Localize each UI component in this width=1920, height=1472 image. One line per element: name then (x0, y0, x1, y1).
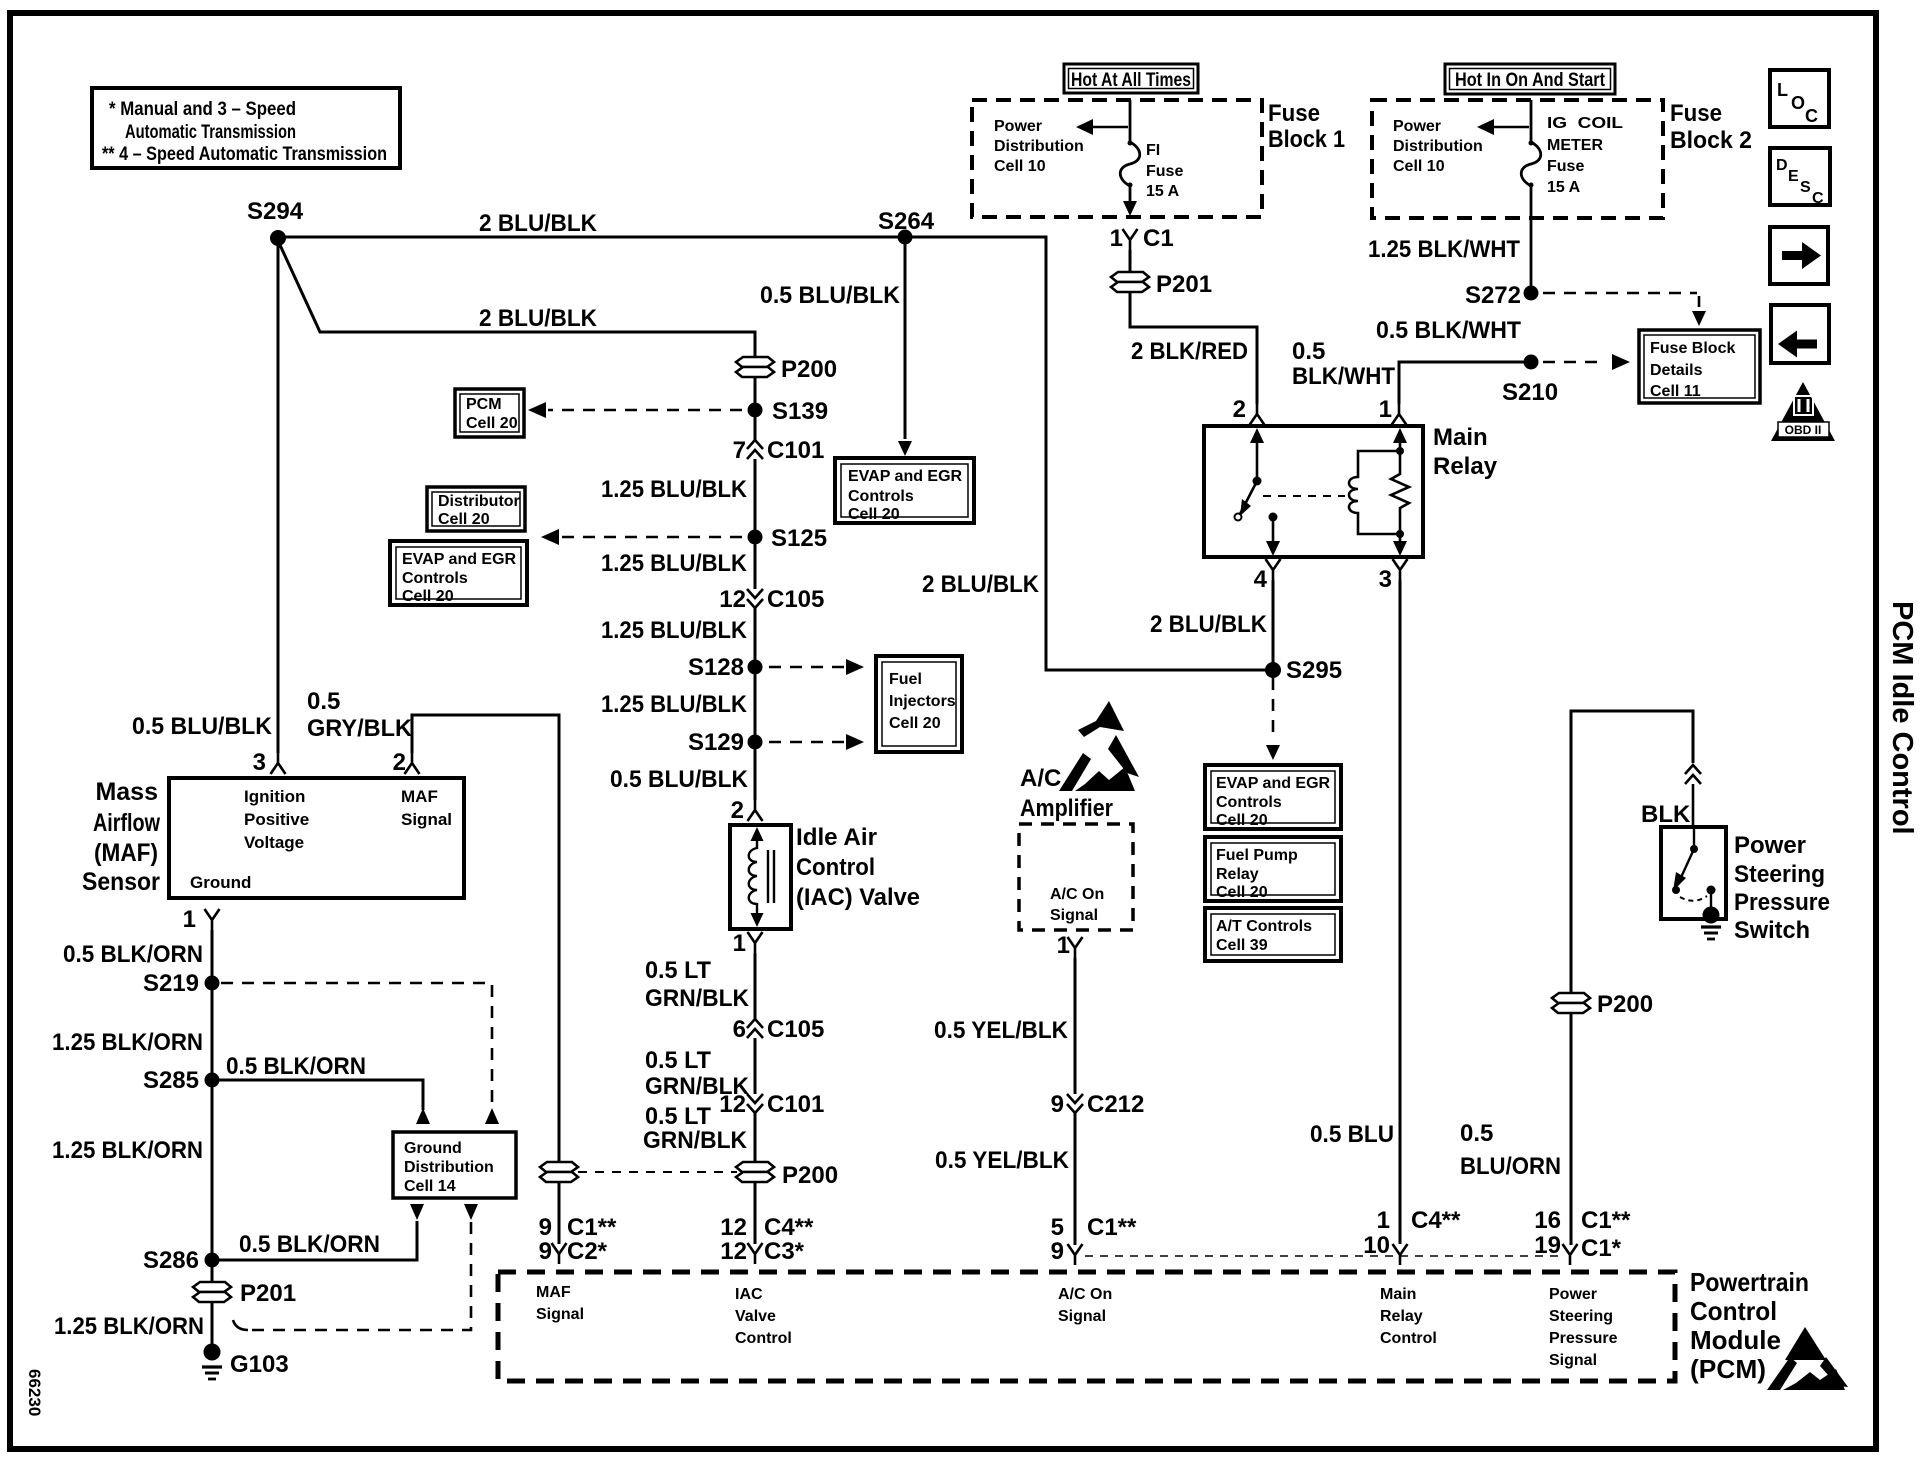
svg-text:Distributor: Distributor (438, 493, 520, 510)
svg-text:2 BLU/BLK: 2 BLU/BLK (479, 210, 598, 237)
svg-text:BLK/WHT: BLK/WHT (1292, 363, 1395, 390)
svg-text:Signal: Signal (1050, 907, 1098, 924)
note box (transmission legend) (92, 88, 400, 168)
svg-text:** 4 – Speed Automatic Transmi: ** 4 – Speed Automatic Transmission (102, 144, 387, 165)
svg-text:GRY/BLK: GRY/BLK (307, 715, 413, 742)
svg-text:3: 3 (1379, 566, 1392, 593)
box Hot At All Times (1064, 64, 1198, 93)
relay pin 2 (1233, 396, 1265, 425)
wire C1 to P201 (1129, 250, 1132, 271)
svg-text:2 BLK/RED: 2 BLK/RED (1131, 338, 1248, 365)
text MAF Signal (pin label) (401, 787, 452, 829)
wire C101 to P200 (754, 1113, 757, 1161)
svg-text:S210: S210 (1502, 379, 1558, 406)
box Mass Airflow (MAF) Sensor (169, 778, 464, 898)
svg-text:MAF: MAF (401, 787, 438, 806)
svg-text:Details: Details (1650, 362, 1703, 379)
relay pin 4 (1254, 559, 1281, 593)
svg-text:Airflow: Airflow (93, 809, 160, 837)
dashed wire S295 to EVAP controls (1266, 678, 1280, 760)
thin dashed PCM pin rail (1085, 1255, 1562, 1257)
text Power Distribution Cell 10 (block 2) (1393, 118, 1483, 175)
connector C1 pin 1 (1110, 225, 1174, 252)
svg-text:2 BLU/BLK: 2 BLU/BLK (922, 571, 1040, 598)
wire chevrons to switch (1692, 784, 1695, 827)
connector P200 (power steering) (1552, 991, 1653, 1018)
wire S294 down to MAF pin 3 (277, 245, 280, 753)
box Distributor Cell 20 (427, 487, 525, 531)
svg-text:1: 1 (733, 930, 746, 957)
svg-text:P201: P201 (1156, 271, 1212, 298)
svg-text:Cell 11: Cell 11 (1650, 383, 1701, 400)
svg-text:0.5 YEL/BLK: 0.5 YEL/BLK (935, 1147, 1070, 1174)
icon previous-page arrow button (1771, 305, 1829, 363)
svg-text:Relay: Relay (1216, 866, 1259, 883)
svg-text:Controls: Controls (1216, 794, 1282, 811)
text A/C On Signal (PCM) (1058, 1286, 1112, 1325)
svg-text:GRN/BLK: GRN/BLK (645, 985, 750, 1012)
wire relay pin 3 to PCM (1399, 580, 1402, 1244)
label 2 BLU/BLK (pin 4 wire) (1150, 611, 1268, 638)
svg-text:2: 2 (731, 797, 744, 824)
svg-text:A/T Controls: A/T Controls (1216, 918, 1312, 935)
splice S264 (878, 208, 935, 245)
svg-text:EVAP and EGR: EVAP and EGR (848, 468, 963, 485)
svg-text:0.5 BLK/ORN: 0.5 BLK/ORN (226, 1053, 366, 1080)
svg-text:0.5 BLK/ORN: 0.5 BLK/ORN (63, 941, 203, 968)
svg-text:Cell 20: Cell 20 (402, 588, 454, 605)
svg-text:Control: Control (796, 854, 875, 881)
svg-text:C105: C105 (767, 1016, 824, 1043)
svg-text:A/C On: A/C On (1050, 886, 1104, 903)
relay switch (internal) (1235, 428, 1346, 556)
label IG COIL METER Fuse 15 A (1547, 115, 1623, 196)
svg-text:Injectors: Injectors (889, 693, 956, 710)
ESD symbol (A/C amplifier) (1059, 701, 1139, 791)
svg-text:1.25 BLU/BLK: 1.25 BLU/BLK (601, 550, 748, 577)
svg-text:A/C On: A/C On (1058, 1286, 1112, 1303)
label Fuse Block 2 (1670, 100, 1752, 154)
icon next-page arrow button (1770, 227, 1828, 284)
arrow fuse output (block 1) (1123, 201, 1137, 216)
icon LOC button (1770, 70, 1829, 127)
text MAF Signal (PCM) (536, 1284, 584, 1323)
connector chevrons (power steering switch lead) (1685, 765, 1701, 784)
svg-text:Steering: Steering (1734, 861, 1825, 888)
dashed wire S128 to fuel injectors (769, 659, 864, 675)
svg-text:IG COIL: IG COIL (1547, 115, 1623, 132)
box PCM Cell 20 (455, 389, 524, 437)
svg-text:Idle Air: Idle Air (796, 824, 877, 851)
icon DESC button (1770, 148, 1830, 207)
svg-text:1.25 BLU/BLK: 1.25 BLU/BLK (601, 617, 748, 644)
svg-text:Hot At All Times: Hot At All Times (1071, 70, 1191, 91)
wire C101 to S125 (754, 459, 757, 530)
svg-text:S294: S294 (247, 198, 304, 225)
label Power Steering Pressure Switch (1734, 832, 1830, 944)
svg-text:Hot In On And Start: Hot In On And Start (1455, 70, 1606, 91)
label 0.5 LT GRN/BLK (1) (645, 957, 750, 1012)
label 0.5 BLK/WHT (two lines) (1292, 338, 1395, 390)
wire S286 to ground distribution (219, 1204, 424, 1260)
relay resistor (internal) (1391, 428, 1409, 556)
svg-text:C: C (1805, 106, 1818, 126)
svg-text:C: C (1812, 190, 1824, 207)
relay pin 1 (1379, 396, 1407, 425)
relay coil (internal) (1349, 451, 1400, 534)
dashed wire S210 to fuse block details (1543, 354, 1630, 370)
svg-text:Power: Power (1393, 118, 1441, 135)
svg-text:Automatic Transmission: Automatic Transmission (125, 122, 296, 143)
wire S294 diagonal branch (280, 245, 755, 357)
svg-text:EVAP and EGR: EVAP and EGR (1216, 775, 1331, 792)
svg-text:1: 1 (183, 906, 196, 933)
svg-text:C1**: C1** (1581, 1207, 1631, 1234)
svg-text:12: 12 (720, 1238, 747, 1265)
svg-text:Controls: Controls (402, 570, 468, 587)
dashed box Fuse Block 1 (972, 100, 1262, 217)
relay box Main Relay (1204, 426, 1423, 557)
svg-text:C1: C1 (1143, 225, 1174, 252)
dashed box Powertrain Control Module (PCM) (498, 1272, 1675, 1381)
svg-text:P200: P200 (782, 1162, 838, 1189)
svg-text:1: 1 (1379, 396, 1392, 423)
PCM pins 12 C4** / 12 C3* (720, 1214, 814, 1265)
svg-text:IAC: IAC (735, 1286, 763, 1303)
svg-text:FI: FI (1146, 142, 1160, 159)
box Fuse Block Details Cell 11 (1639, 330, 1760, 403)
svg-text:C3*: C3* (764, 1238, 805, 1265)
text IAC Valve Control (PCM) (735, 1286, 792, 1347)
svg-text:Cell 20: Cell 20 (889, 715, 941, 732)
box Fuel Pump Relay Cell 20 (1205, 837, 1341, 901)
label 0.5 YEL/BLK (1) (934, 1017, 1069, 1044)
label 0.5 BLK/ORN (1) (63, 941, 203, 968)
svg-text:Pressure: Pressure (1549, 1330, 1618, 1347)
svg-text:S128: S128 (688, 654, 744, 681)
svg-text:(PCM): (PCM) (1690, 1354, 1766, 1384)
connector P200 (MAF column) (540, 1162, 578, 1182)
PCM pins 5 C1** / 9 (1051, 1214, 1137, 1265)
svg-text:9: 9 (539, 1238, 552, 1265)
splice S286 (143, 1247, 220, 1274)
svg-text:Signal: Signal (1549, 1352, 1597, 1369)
svg-text:1: 1 (1377, 1207, 1390, 1234)
svg-text:2: 2 (1233, 396, 1246, 423)
svg-text:1.25 BLK/ORN: 1.25 BLK/ORN (52, 1137, 203, 1164)
wire P200 to PCM pin 9 (558, 1182, 561, 1244)
wire S139 to C101 (754, 417, 757, 440)
svg-text:Distribution: Distribution (1393, 138, 1483, 155)
dashed wire S125 to distributor / EVAP (541, 529, 742, 545)
svg-text:Powertrain: Powertrain (1690, 1267, 1809, 1297)
label A/C Amplifier (1020, 765, 1113, 822)
svg-text:MAF: MAF (536, 1284, 571, 1301)
svg-text:1.25 BLU/BLK: 1.25 BLU/BLK (601, 476, 748, 503)
svg-text:Ignition: Ignition (244, 787, 305, 806)
wire S129 to IAC pin 2 (754, 749, 757, 800)
wire P200 to S139 (754, 377, 757, 404)
connector C212 pin 9 (1051, 1091, 1145, 1118)
label 0.5 BLK/ORN (S285) (226, 1053, 366, 1080)
label 2 BLU/BLK (diagonal branch) (479, 305, 598, 332)
svg-text:15 A: 15 A (1547, 179, 1581, 196)
svg-text:Fuel Pump: Fuel Pump (1216, 847, 1298, 864)
wire power steering feed (1571, 711, 1693, 992)
svg-text:0.5: 0.5 (1292, 338, 1325, 365)
box Ground Distribution Cell 14 (393, 1132, 516, 1198)
svg-text:Fuse: Fuse (1268, 100, 1320, 127)
svg-text:C105: C105 (767, 586, 824, 613)
svg-text:BLU/ORN: BLU/ORN (1460, 1153, 1561, 1180)
box EVAP and EGR Controls Cell 20 (right) (1205, 765, 1341, 829)
svg-text:1.25 BLK/ORN: 1.25 BLK/ORN (52, 1029, 203, 1056)
label 0.5 YEL/BLK (2) (935, 1147, 1070, 1174)
svg-text:1.25 BLK/WHT: 1.25 BLK/WHT (1368, 236, 1520, 263)
svg-text:Signal: Signal (401, 810, 452, 829)
svg-text:Steering: Steering (1549, 1308, 1613, 1325)
svg-text:Signal: Signal (1058, 1308, 1106, 1325)
svg-text:Relay: Relay (1433, 453, 1498, 480)
label 0.5 BLK/WHT (1376, 317, 1521, 344)
svg-text:Cell 20: Cell 20 (466, 415, 518, 432)
svg-text:Main: Main (1433, 424, 1488, 451)
svg-text:Block 2: Block 2 (1670, 127, 1752, 154)
svg-text:Power: Power (994, 118, 1042, 135)
svg-text:S219: S219 (143, 970, 199, 997)
text Power Distribution Cell 10 (block 1) (994, 118, 1084, 175)
svg-text:9: 9 (1051, 1238, 1064, 1265)
svg-text:C1*: C1* (1581, 1235, 1622, 1262)
connector C101 pin 12 (719, 1091, 824, 1118)
text Main Relay Control (PCM) (1380, 1286, 1437, 1347)
svg-text:2: 2 (393, 749, 406, 776)
wire IAC pin 1 to C105 (754, 953, 757, 1019)
svg-text:6: 6 (733, 1016, 746, 1043)
svg-text:Fuse Block: Fuse Block (1650, 340, 1735, 357)
dashed box A/C On Signal (1019, 824, 1133, 930)
A/C pin 1 (1057, 932, 1083, 959)
svg-text:C101: C101 (767, 437, 824, 464)
svg-text:Distribution: Distribution (994, 138, 1084, 155)
box Fuel Injectors Cell 20 (876, 656, 962, 752)
svg-text:G103: G103 (230, 1351, 289, 1378)
wire S210 to relay pin 1 (1399, 362, 1531, 404)
label BLK (1641, 801, 1691, 828)
label 0.5 BLK/ORN (S286) (239, 1231, 380, 1258)
label 1.25 BLK/ORN (2) (52, 1137, 203, 1164)
label 1.25 BLU/BLK (4) (601, 691, 748, 718)
svg-text:C212: C212 (1087, 1091, 1144, 1118)
svg-text:GRN/BLK: GRN/BLK (643, 1127, 748, 1154)
dashed wire S129 to fuel injectors (769, 734, 864, 750)
box power steering pressure switch (1661, 827, 1726, 919)
svg-text:Cell 10: Cell 10 (1393, 158, 1445, 175)
label Powertrain Control Module (PCM) (1690, 1267, 1809, 1384)
label 0.5 GRY/BLK (307, 688, 413, 742)
fuse IG COIL METER 15 A (1521, 100, 1541, 287)
label 1.25 BLK/WHT (1368, 236, 1520, 263)
svg-text:Cell 20: Cell 20 (438, 511, 490, 528)
svg-text:METER: METER (1547, 137, 1603, 154)
svg-text:1: 1 (1057, 932, 1070, 959)
svg-text:Amplifier: Amplifier (1020, 795, 1113, 822)
svg-text:Fuse: Fuse (1670, 100, 1722, 127)
svg-text:Block 1: Block 1 (1268, 126, 1345, 153)
svg-text:Distribution: Distribution (404, 1159, 494, 1176)
dashed wire S219 to ground distribution (221, 983, 499, 1124)
svg-text:C4**: C4** (1411, 1207, 1461, 1234)
svg-text:9: 9 (1051, 1091, 1064, 1118)
svg-text:L: L (1777, 80, 1788, 100)
label 1.25 BLK/ORN (1) (52, 1029, 203, 1056)
svg-text:0.5 BLK/WHT: 0.5 BLK/WHT (1376, 317, 1521, 344)
wire S125 to C105 (754, 544, 757, 589)
MAF pin 1 (183, 906, 220, 933)
label 1.25 BLU/BLK (2) (601, 550, 748, 577)
text Power Steering Pressure Signal (PCM) (1549, 1286, 1618, 1369)
svg-text:Fuse: Fuse (1547, 158, 1584, 175)
svg-text:Cell 39: Cell 39 (1216, 937, 1268, 954)
wire P201 to G103 (211, 1302, 214, 1346)
wire relay pin 4 to S295 (1272, 580, 1275, 663)
svg-text:PCM: PCM (466, 396, 502, 413)
svg-text:D: D (1776, 157, 1788, 174)
svg-text:Module: Module (1690, 1325, 1781, 1355)
dashed wire S139 to PCM cell 20 (528, 402, 742, 418)
wire S294 to corner (2 BLU/BLK main feed) (278, 237, 1266, 670)
svg-text:0.5 YEL/BLK: 0.5 YEL/BLK (934, 1017, 1069, 1044)
wire S128 to S129 (754, 674, 757, 735)
icon OBD II badge (1771, 382, 1835, 441)
svg-text:S129: S129 (688, 729, 744, 756)
ESD triangle (PCM upper) (1785, 1327, 1826, 1360)
label Idle Air Control (IAC) Valve (796, 824, 920, 911)
wire A/C pin 1 to C212 (1074, 958, 1077, 1094)
wire MAF pin 1 ground chain (211, 930, 214, 1281)
connector P200 (main column) (736, 356, 837, 383)
box Idle Air Control (IAC) Valve (730, 825, 791, 929)
svg-text:0.5 BLU/BLK: 0.5 BLU/BLK (760, 282, 901, 309)
label 1.25 BLU/BLK (1) (601, 476, 748, 503)
svg-text:0.5 LT: 0.5 LT (645, 957, 711, 984)
svg-text:12: 12 (719, 586, 746, 613)
label 0.5 BLU/BLK (MAF feed) (132, 713, 273, 740)
svg-text:2 BLU/BLK: 2 BLU/BLK (479, 305, 598, 332)
svg-text:C101: C101 (767, 1091, 824, 1118)
svg-text:Positive: Positive (244, 810, 309, 829)
connector P200 (IAC column) (736, 1162, 838, 1189)
text Ignition Positive Voltage (244, 787, 309, 852)
wire C105 to S128 (754, 608, 757, 660)
splice S294 (247, 198, 304, 246)
dashed wire ground distribution to G103 area (233, 1204, 478, 1330)
svg-text:Relay: Relay (1380, 1308, 1423, 1325)
svg-text:BLK: BLK (1641, 801, 1691, 828)
svg-text:0.5 LT: 0.5 LT (645, 1047, 711, 1074)
IAC solenoid (internal) (749, 827, 774, 927)
svg-text:OBD II: OBD II (1785, 423, 1822, 437)
svg-text:0.5 BLU/BLK: 0.5 BLU/BLK (610, 766, 749, 793)
IAC pin 1 (733, 930, 763, 957)
svg-text:Cell 20: Cell 20 (1216, 884, 1268, 901)
svg-text:P201: P201 (240, 1280, 296, 1307)
splice S139 (748, 398, 829, 425)
svg-text:E: E (1788, 168, 1799, 185)
label 1.25 BLU/BLK (3) (601, 617, 748, 644)
svg-text:10: 10 (1363, 1232, 1390, 1259)
svg-text:1.25 BLU/BLK: 1.25 BLU/BLK (601, 691, 748, 718)
switch contacts (internal) (1672, 827, 1721, 939)
label 2 BLU/BLK (corner wire) (922, 571, 1040, 598)
splice S125 (748, 525, 828, 552)
connector C105 pin 6 (733, 1016, 825, 1043)
svg-text:C1**: C1** (567, 1214, 617, 1241)
label Fuse Block 1 (1268, 100, 1345, 153)
dashed box Fuse Block 2 (1372, 100, 1663, 218)
sidebar fiche number 66230 (25, 1369, 44, 1416)
svg-text:0.5 BLU: 0.5 BLU (1310, 1121, 1394, 1148)
svg-text:(IAC) Valve: (IAC) Valve (796, 884, 920, 911)
svg-text:15 A: 15 A (1146, 183, 1180, 200)
label 0.5 BLU/BLK (IAC feed) (610, 766, 749, 793)
svg-text:* Manual and 3 – Speed: * Manual and 3 – Speed (109, 99, 296, 120)
svg-text:Cell 20: Cell 20 (1216, 812, 1268, 829)
box Hot In On And Start (1445, 64, 1615, 94)
svg-text:Sensor: Sensor (82, 868, 160, 896)
label 2 BLU/BLK (top run) (479, 210, 598, 237)
label Main Relay (1433, 424, 1498, 480)
svg-text:(MAF): (MAF) (94, 839, 158, 867)
svg-text:Control: Control (735, 1330, 792, 1347)
splice S129 (688, 729, 763, 756)
PCM pins 16/19 C1** C1* (1534, 1207, 1631, 1265)
svg-text:S264: S264 (878, 208, 935, 235)
svg-text:0.5 LT: 0.5 LT (645, 1103, 711, 1130)
svg-text:7: 7 (733, 437, 746, 464)
svg-text:Fuse: Fuse (1146, 163, 1183, 180)
wire MAF pin 2 signal (412, 715, 559, 1162)
svg-text:Cell 14: Cell 14 (404, 1178, 456, 1195)
label 2 BLK/RED (1131, 338, 1248, 365)
svg-text:0.5: 0.5 (307, 688, 340, 715)
svg-text:Control: Control (1380, 1330, 1437, 1347)
splice S210 (1502, 355, 1558, 407)
svg-text:S286: S286 (143, 1247, 199, 1274)
label FI Fuse 15 A (1146, 142, 1183, 200)
wire P200 to PCM pin 12 (754, 1182, 757, 1244)
svg-text:Voltage: Voltage (244, 833, 304, 852)
svg-text:4: 4 (1254, 566, 1268, 593)
wire C105 to C101 (754, 1038, 757, 1094)
svg-text:12: 12 (719, 1091, 746, 1118)
svg-text:P200: P200 (1597, 991, 1653, 1018)
svg-text:19: 19 (1534, 1232, 1561, 1259)
svg-text:C1**: C1** (1087, 1214, 1137, 1241)
svg-text:S: S (1800, 179, 1811, 196)
svg-text:Power: Power (1734, 832, 1806, 859)
svg-text:S285: S285 (143, 1067, 199, 1094)
svg-text:P200: P200 (781, 356, 837, 383)
svg-text:Control: Control (1690, 1296, 1777, 1326)
box EVAP and EGR Controls Cell 20 (upper) (835, 458, 974, 523)
splice S219 (143, 970, 220, 997)
arrow to power distribution (block 1) (1076, 119, 1128, 135)
box A/T Controls Cell 39 (1205, 908, 1341, 961)
connector C105 pin 12 (719, 586, 824, 613)
ground G103 (202, 1344, 289, 1380)
text Ground (pin label) (190, 873, 251, 892)
